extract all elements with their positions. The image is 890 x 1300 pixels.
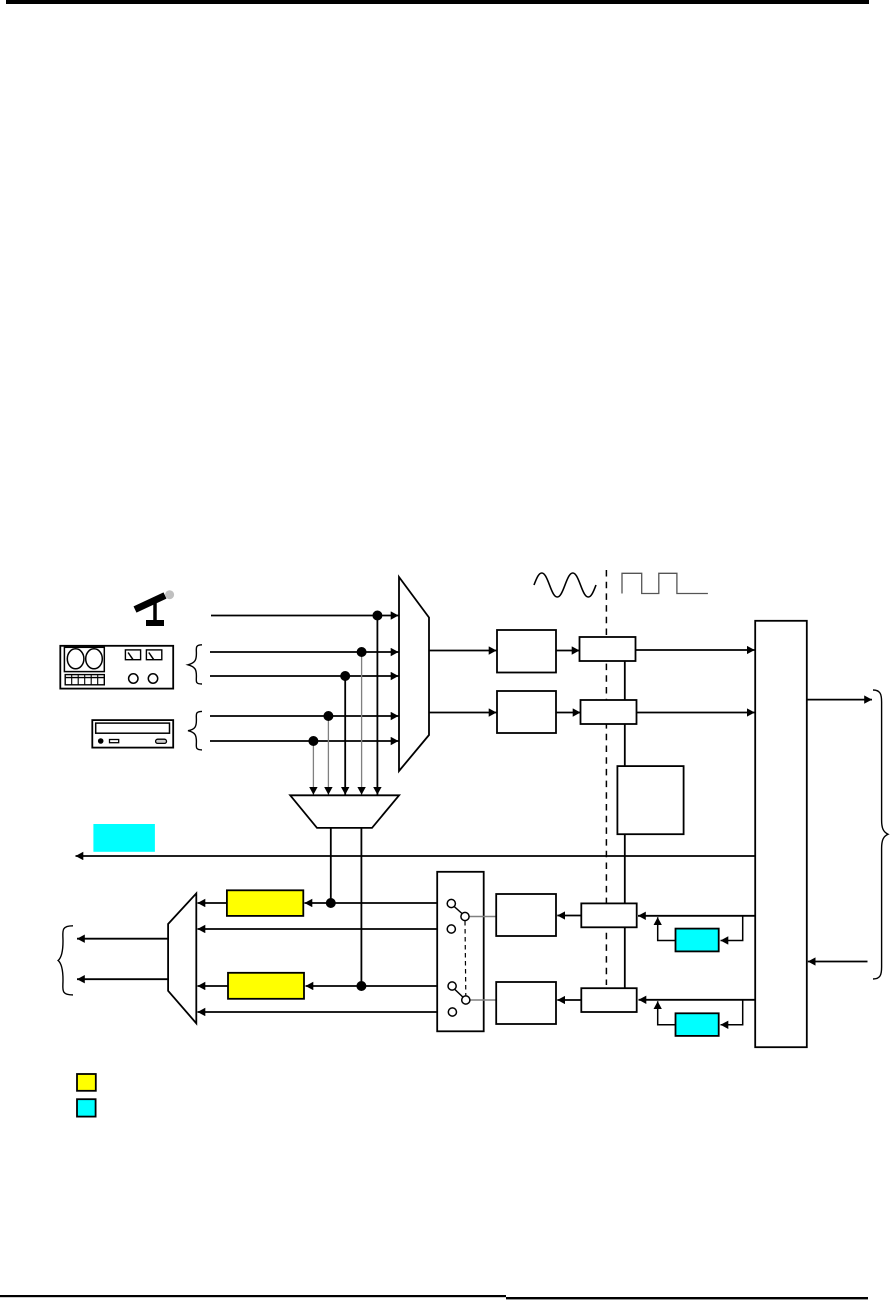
feedback1 branch down [721,916,743,941]
deemphasis cyan box 1 [676,929,719,952]
footer rule left [0,1295,506,1297]
wire tap tape R to record mux [344,676,346,795]
wire cd input R [210,740,399,742]
interpolation filter 3 [581,903,636,927]
decimation filter 2 [581,700,637,724]
legend cyan square [77,1099,96,1116]
junction dot tape L [357,647,367,657]
junction dot tape R [340,671,350,681]
output demultiplexer [168,893,196,1023]
wire yellow1 to out demux [198,902,227,904]
DAC block 2 [496,982,556,1024]
attenuator yellow box 1 [227,890,303,916]
brace line outputs [58,926,73,995]
ADC block 2 [497,691,556,733]
wire cd input L [210,715,399,717]
wire clock filter1-filter2 [624,661,626,700]
CD player icon [92,720,173,748]
wire tape input R [210,675,399,677]
switch2 link to DAC2 [470,999,496,1001]
legend yellow square [77,1074,96,1091]
interpolation filter 4 [581,988,636,1012]
attenuator yellow box 2 [228,973,304,999]
switch2 contact A [448,982,456,990]
square wave symbol (digital domain) [622,573,708,593]
wire switch row2 to out demux [198,928,448,930]
brace serial data bus [873,690,888,979]
junction dot record-to-yellow2 [356,981,366,991]
wire line out R [77,978,168,980]
switch1 contact A [447,899,455,907]
wire tap mic to record mux [376,616,378,795]
wire tap tape L to record mux [361,652,363,795]
decimation filter 1 [580,637,636,661]
switch2 common B [462,996,470,1004]
wire clock filter2-clockblock [624,724,626,766]
wire switch row4 to out demux [198,1011,449,1013]
wire record mux out right [360,828,362,986]
junction dot cd R [308,736,318,746]
wire interface data in [808,961,868,963]
wire switch to yellow1 [305,902,448,904]
junction dot cd L [323,711,333,721]
digital interface block [755,621,807,1047]
wire mic input [211,615,399,617]
ADC block 1 [497,630,556,673]
wire filter4 to DAC2 [557,999,581,1001]
wire filter2 to interface [637,712,755,714]
footer rule right [506,1297,868,1299]
wire clock clockblock-filter3 [624,834,626,903]
wire filter1 to interface [636,649,755,651]
wire ADC1 to filter1 [556,650,580,652]
wire clock filter3-filter4 [624,927,626,988]
monitor label box (cyan) [93,824,154,852]
switch1 common B [461,912,469,920]
feedback2 return up [658,1001,676,1025]
monitor mix wire (long left arrow) [76,855,756,857]
dashed analog/digital boundary line [605,570,607,985]
wire tap cd L to record mux [327,716,329,795]
microphone icon [135,590,174,626]
wire mux to ADC1 [429,650,497,652]
switch2 lever [454,989,462,997]
DAC block 1 [496,894,556,936]
junction dot mic [372,611,382,621]
input multiplexer [399,577,429,771]
sine wave symbol (analog domain) [534,573,596,597]
switch box [437,872,484,1032]
record multiplexer [290,795,399,828]
brace cd inputs [188,711,202,750]
switch ganged dashed link [464,921,467,996]
feedback2 branch down [721,1000,743,1025]
wire mux to ADC2 [429,712,497,714]
wire line out L [77,938,168,940]
wire tap cd R to record mux [312,741,314,795]
wire yellow2 to out demux [198,985,229,987]
feedback1 return up [658,917,676,940]
switch1 contact C [447,925,455,933]
deemphasis cyan box 2 [676,1013,719,1036]
wire interface to filter4 [639,999,756,1001]
switch2 contact C [448,1008,456,1016]
switch1 link to DAC1 [469,916,496,918]
tape deck icon [60,646,173,689]
wire record mux out left [330,828,332,903]
wire tape input L [210,651,399,653]
brace tape inputs [188,645,202,684]
wire filter3 to DAC1 [557,915,581,917]
wire ADC2 to filter2 [556,712,581,714]
wire interface data out [807,699,872,701]
clock control block [617,766,683,834]
header rule [6,0,869,4]
wire interface to filter3 [638,915,755,917]
wire switch to yellow2 [306,985,449,987]
junction dot record-to-yellow1 [326,898,336,908]
switch1 lever [454,906,462,914]
